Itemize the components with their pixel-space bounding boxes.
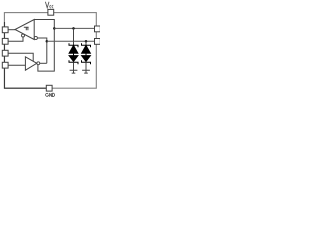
node B rail junction (46, 40, 49, 43)
wire GND bus (left border down to GND pin) (5, 22, 47, 88)
ground stack1 (70, 70, 78, 73)
wire R output (pin1 to receiver apex) (8, 29, 15, 31)
wire down to diode stack 2 (85, 41, 87, 45)
wire stack2 to ground (85, 62, 87, 70)
pin Vcc (48, 9, 54, 15)
pin RE (2, 38, 8, 44)
pin GND (46, 85, 52, 91)
IC package outline (4, 13, 96, 89)
wire receiver B input (bubble right, down to B rail, loop to driver) (37, 38, 47, 63)
wire driver output to A vertical (40, 62, 47, 64)
label GND (46, 93, 55, 97)
wire A rail (54, 27, 94, 29)
diode D4 (zener, cathode down) (82, 56, 91, 65)
node A rail junction (53, 27, 56, 30)
driver output bubble (37, 62, 40, 65)
op-amp U2 driver triangle (25, 57, 36, 70)
pin DE (2, 50, 8, 56)
pin B (95, 39, 101, 45)
diode D2 (zener, cathode down) (69, 56, 78, 65)
hysteresis symbol (24, 27, 29, 30)
diode D1 (zener, cathode up) (69, 43, 78, 53)
pin R (2, 27, 8, 33)
wire receiver A input (base top corner right, down to A rail, on to driver output) (34, 20, 54, 72)
node diode stack 1 junction (72, 27, 75, 30)
wire stack2 middle (85, 53, 87, 55)
label Vcc (45, 2, 53, 8)
wire stack1 middle (73, 53, 75, 55)
receiver enable bubble (22, 34, 25, 37)
op-amp U1 receiver triangle (15, 20, 34, 40)
pin D (2, 62, 8, 68)
wire DE (pin3 right then down to driver top edge) (8, 53, 33, 61)
receiver B-input bubble (34, 36, 37, 39)
wire stack1 to ground (73, 62, 75, 70)
diode D3 (zener, cathode up) (82, 43, 91, 53)
wire RE (pin2 right then up to receiver enable bubble) (8, 37, 23, 41)
wire B rail (47, 40, 95, 42)
wire down to diode stack 1 (73, 28, 75, 45)
node diode stack 2 junction (85, 40, 88, 43)
wire D input (pin4 to driver left edge) (8, 64, 25, 66)
pin A (95, 26, 101, 32)
ground stack2 (82, 70, 90, 73)
